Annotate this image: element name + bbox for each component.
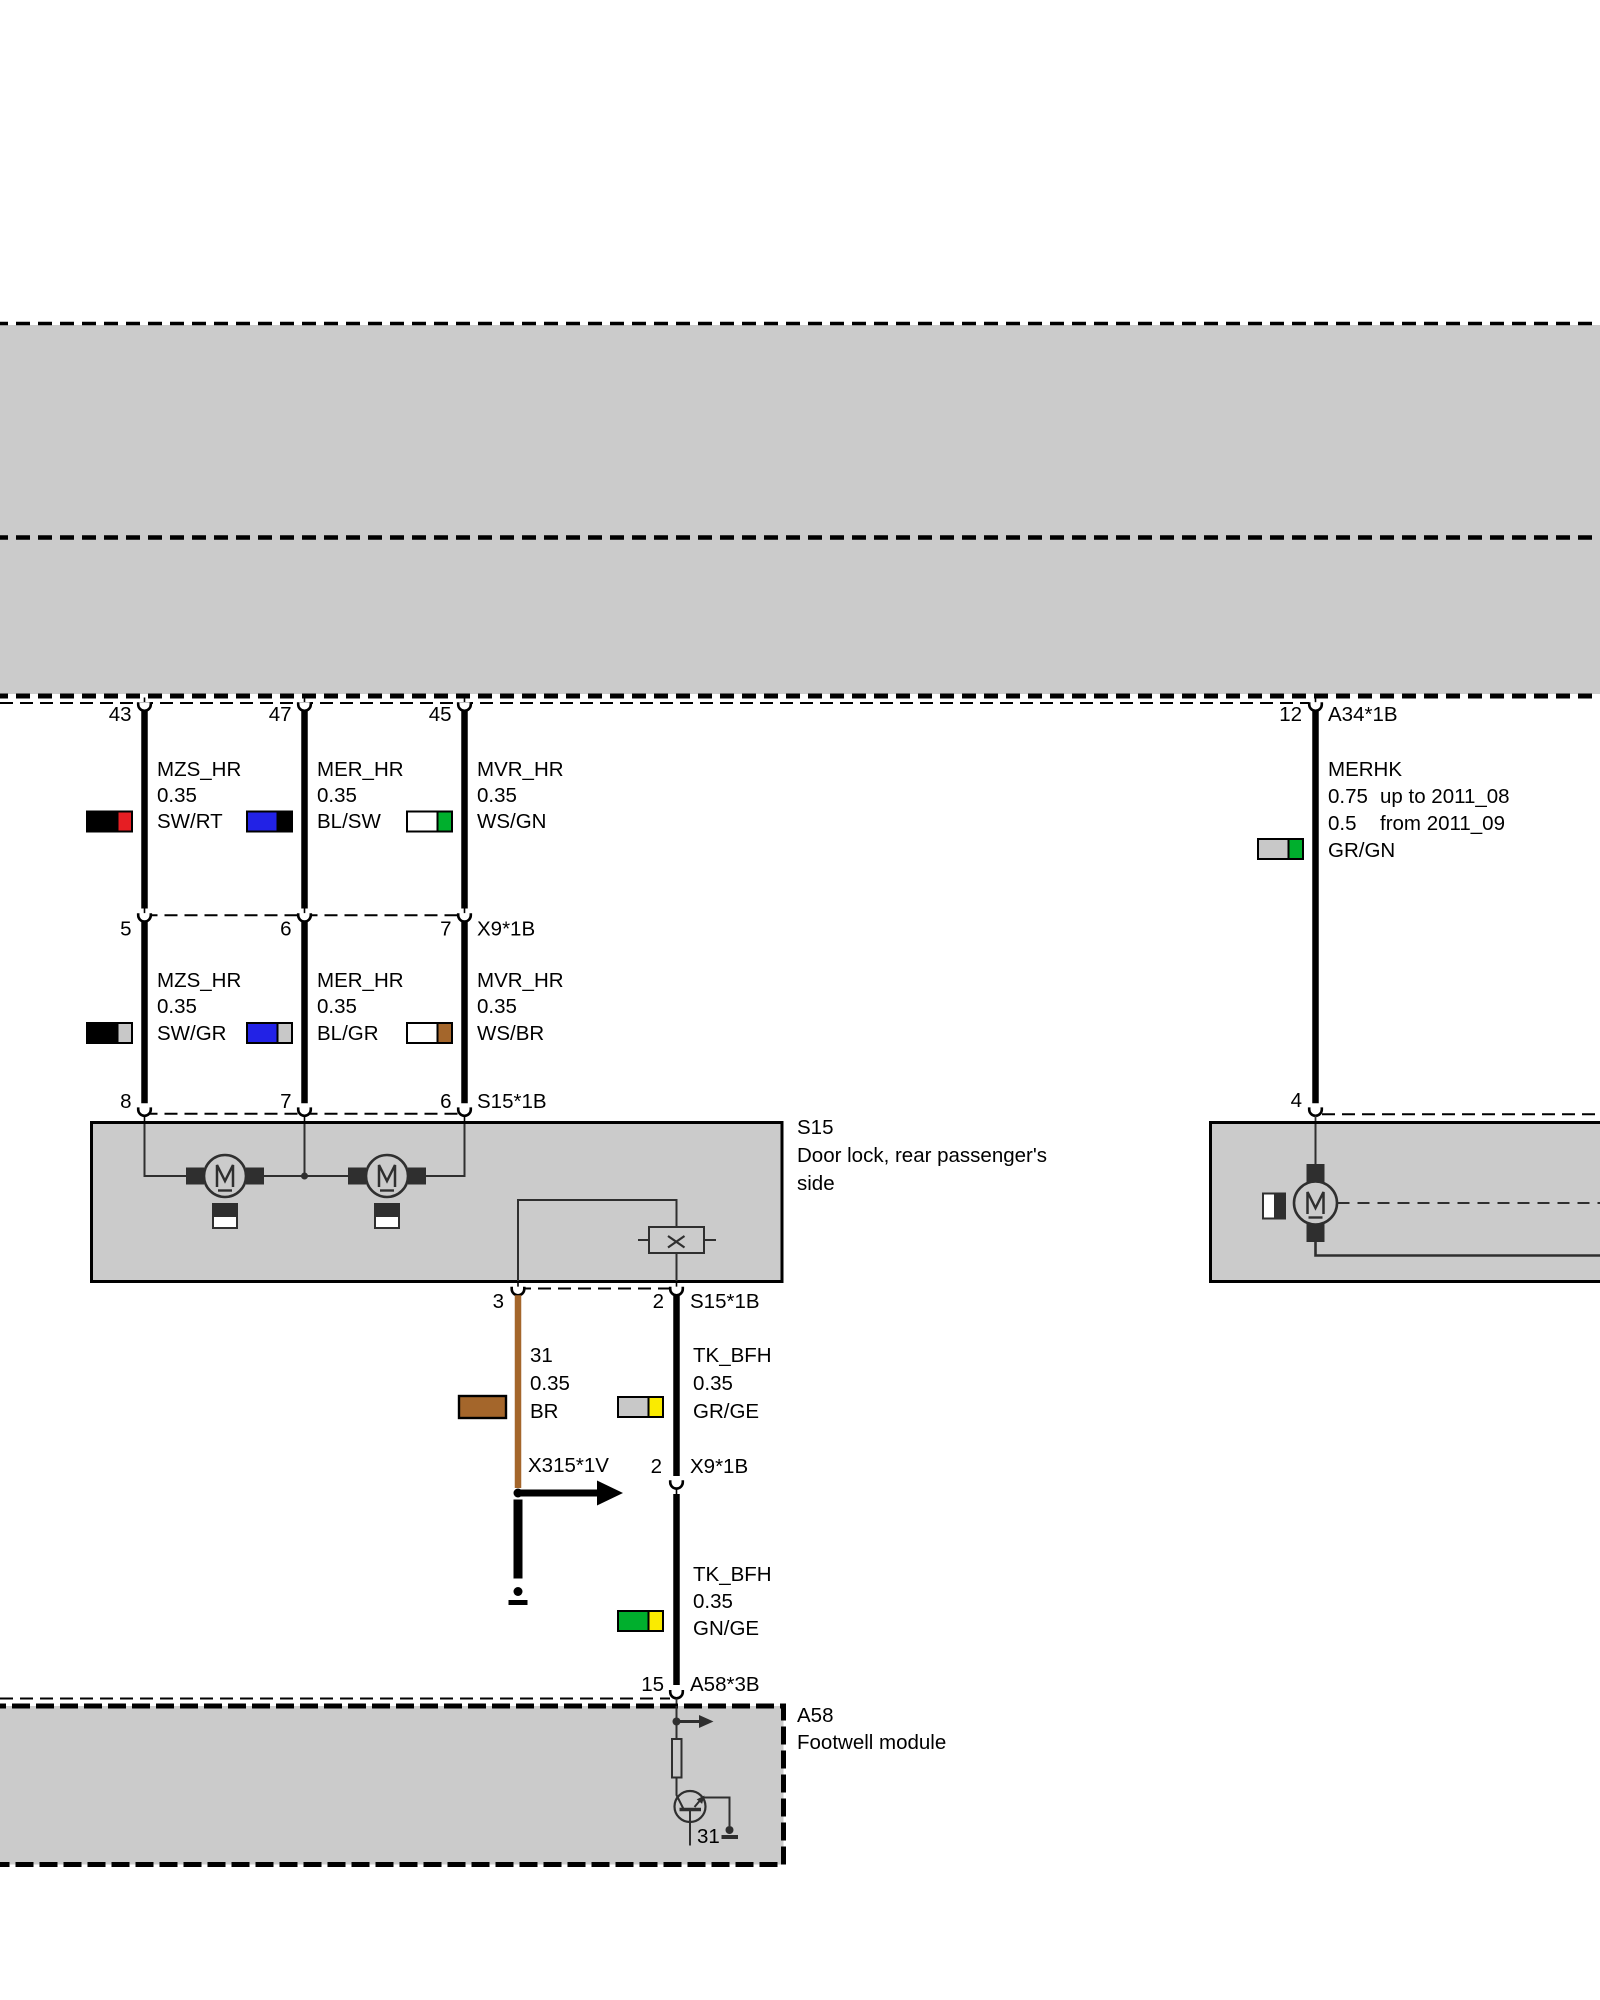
label MVR_HR 0.35 WS/GN: [477, 758, 564, 833]
arrow X315*1V: [518, 1481, 623, 1506]
connector socket pin 4: [1309, 1107, 1322, 1124]
svg-text:0.35: 0.35: [317, 784, 357, 807]
top harness band lower dashed border: [0, 694, 1600, 699]
connector socket X9 pin 6: [298, 909, 311, 922]
svg-text:3: 3: [493, 1290, 504, 1313]
svg-text:0.35: 0.35: [530, 1372, 570, 1395]
wire S15 pin7 to junction: [304, 1124, 306, 1176]
wire pin4 to motor M3: [1315, 1124, 1317, 1164]
colour swatch WS/GN: [406, 811, 453, 833]
wire M3 lower terminal: [1316, 1242, 1600, 1256]
S15 bottom connector dashed line: [518, 1288, 677, 1290]
svg-text:S15*1B: S15*1B: [690, 1290, 760, 1313]
svg-text:5: 5: [120, 918, 131, 941]
top harness band middle dashed divider: [0, 535, 1600, 540]
ground underline: [509, 1600, 528, 1605]
A58 connector strip dashed line: [0, 1698, 670, 1700]
A58 junction node: [673, 1718, 681, 1726]
svg-text:2: 2: [651, 1455, 662, 1478]
svg-text:WS/BR: WS/BR: [477, 1022, 544, 1045]
motor M3: [1294, 1164, 1337, 1242]
colour swatch GR/GN: [1257, 838, 1304, 860]
colour swatch SW/RT: [86, 811, 133, 833]
svg-text:MVR_HR: MVR_HR: [477, 969, 564, 992]
ground lead bar: [514, 1500, 523, 1579]
colour swatch BL/GR: [246, 1022, 293, 1044]
svg-text:GR/GE: GR/GE: [693, 1400, 759, 1423]
svg-text:GR/GN: GR/GN: [1328, 839, 1395, 862]
connector X9*1B dashed box: [145, 915, 465, 1113]
svg-text:0.35: 0.35: [157, 784, 197, 807]
wire emitter to ground: [703, 1798, 730, 1827]
label MZS_HR 0.35 SW/RT: [157, 758, 241, 833]
label MVR_HR 0.35 WS/BR: [477, 969, 564, 1045]
svg-text:0.35: 0.35: [157, 995, 197, 1018]
label TK_BFH 0.35 GR/GE: [693, 1344, 772, 1423]
wire MVR_HR WS/BR lower: [461, 922, 468, 1104]
svg-text:0.35: 0.35: [693, 1372, 733, 1395]
svg-text:SW/GR: SW/GR: [157, 1022, 226, 1045]
svg-text:TK_BFH: TK_BFH: [693, 1563, 772, 1586]
connector socket S15 pin 7: [298, 1107, 311, 1124]
svg-text:0.35: 0.35: [477, 784, 517, 807]
svg-text:MER_HR: MER_HR: [317, 758, 404, 781]
colour swatch GN/GE: [617, 1610, 664, 1632]
label 31 0.35 BR: [530, 1344, 570, 1423]
connector socket pin 3: [512, 1283, 525, 1295]
motor M2: [348, 1155, 426, 1197]
svg-text:A58: A58: [797, 1704, 833, 1727]
connector socket pin 43: [138, 698, 151, 711]
wire MVR_HR WS/GN upper: [461, 711, 468, 909]
svg-text:6: 6: [280, 918, 291, 941]
ground underline A58: [722, 1835, 739, 1839]
connector socket S15 pin 6: [458, 1107, 471, 1124]
connector socket S15 pin 8: [138, 1107, 151, 1124]
colour swatch WS/BR: [406, 1022, 453, 1044]
svg-text:0.35: 0.35: [317, 995, 357, 1018]
svg-text:SW/RT: SW/RT: [157, 810, 223, 833]
wire M1 to M2: [263, 1175, 348, 1177]
A58 designator label: [797, 1704, 946, 1754]
latch symbol left of M3: [1263, 1193, 1286, 1220]
svg-text:BL/GR: BL/GR: [317, 1022, 379, 1045]
svg-text:A58*3B: A58*3B: [690, 1673, 760, 1696]
svg-text:A34*1B: A34*1B: [1328, 703, 1398, 726]
svg-text:4: 4: [1291, 1089, 1302, 1112]
svg-text:7: 7: [440, 918, 451, 941]
wire pin3 to switch: [518, 1200, 677, 1281]
wire resistor to transistor base: [677, 1778, 684, 1810]
connector socket pin 47: [298, 698, 311, 711]
svg-text:MER_HR: MER_HR: [317, 969, 404, 992]
svg-text:0.35: 0.35: [477, 995, 517, 1018]
svg-text:47: 47: [269, 703, 292, 726]
label MER_HR 0.35 BL/GR: [317, 969, 404, 1045]
wire MZS_HR SW/RT upper: [141, 711, 148, 909]
svg-text:Footwell module: Footwell module: [797, 1731, 946, 1754]
svg-text:up to 2011_08: up to 2011_08: [1380, 785, 1510, 808]
ground dot A58: [726, 1826, 734, 1834]
connector socket X9 pin 5: [138, 909, 151, 922]
svg-text:MZS_HR: MZS_HR: [157, 969, 241, 992]
svg-text:0.35: 0.35: [693, 1590, 733, 1613]
svg-text:side: side: [797, 1172, 835, 1195]
svg-text:X9*1B: X9*1B: [690, 1455, 748, 1478]
svg-text:0.5: 0.5: [1328, 812, 1357, 835]
connector socket pin 45: [458, 698, 471, 711]
junction node: [301, 1173, 308, 1180]
top harness band upper dashed border: [0, 322, 1600, 326]
svg-text:X315*1V: X315*1V: [528, 1454, 609, 1477]
svg-text:MVR_HR: MVR_HR: [477, 758, 564, 781]
svg-text:GN/GE: GN/GE: [693, 1617, 759, 1640]
svg-text:from 2011_09: from 2011_09: [1380, 812, 1505, 835]
label MERHK 0.75/0.5 GR/GN: [1328, 758, 1510, 862]
wire switch to pin2: [676, 1253, 678, 1281]
wire TK_BFH GR/GE: [673, 1295, 680, 1476]
label MZS_HR 0.35 SW/GR: [157, 969, 241, 1045]
label TK_BFH 0.35 GN/GE: [693, 1563, 772, 1640]
label MER_HR 0.35 BL/SW: [317, 758, 404, 833]
connector socket pin 12: [1309, 698, 1322, 711]
inline connector X9*1B pin 2: [670, 1480, 683, 1494]
door lock module right box: [1211, 1123, 1600, 1282]
wire S15 pin8 to motor M1: [145, 1124, 187, 1176]
resistor R1: [672, 1739, 682, 1778]
transistor Q1: [675, 1791, 706, 1846]
A58 internal arrow: [677, 1715, 714, 1728]
right box connector dashed line: [1322, 1113, 1600, 1115]
colour swatch GR/GE: [617, 1396, 664, 1418]
svg-text:WS/GN: WS/GN: [477, 810, 546, 833]
junction node X315*1V: [514, 1489, 523, 1498]
wire 31 BR (brown ground wire): [515, 1295, 522, 1488]
wire TK_BFH GN/GE: [673, 1494, 680, 1685]
ground dot: [514, 1587, 523, 1596]
wire MZS_HR SW/GR lower: [141, 922, 148, 1104]
svg-text:S15*1B: S15*1B: [477, 1090, 547, 1113]
colour swatch BL/SW: [246, 811, 293, 833]
latch symbol under M1: [212, 1203, 238, 1228]
svg-text:MERHK: MERHK: [1328, 758, 1402, 781]
svg-text:BR: BR: [530, 1400, 558, 1423]
connector socket A58 pin 15: [670, 1690, 683, 1704]
wire MER_HR BL/SW upper: [301, 711, 308, 909]
svg-text:TK_BFH: TK_BFH: [693, 1344, 772, 1367]
top harness band (gray bus): [0, 325, 1600, 694]
svg-text:43: 43: [109, 703, 132, 726]
svg-text:12: 12: [1279, 703, 1302, 726]
svg-text:8: 8: [120, 1090, 131, 1113]
wire MER_HR BL/GR lower: [301, 922, 308, 1104]
colour swatch SW/GR: [86, 1022, 133, 1044]
svg-text:15: 15: [641, 1673, 664, 1696]
svg-text:7: 7: [280, 1090, 291, 1113]
wire S15 pin6 to motor M2: [426, 1124, 465, 1176]
svg-text:6: 6: [440, 1090, 451, 1113]
svg-text:Door lock, rear passenger's: Door lock, rear passenger's: [797, 1144, 1047, 1167]
connector socket pin 2: [670, 1283, 683, 1295]
switch contact (x): [638, 1227, 716, 1253]
svg-text:45: 45: [429, 703, 452, 726]
motor M1: [186, 1155, 264, 1197]
svg-text:0.75: 0.75: [1328, 785, 1368, 808]
footwell module A58 box: [0, 1706, 784, 1865]
connector socket X9 pin 7: [458, 909, 471, 922]
svg-text:31: 31: [697, 1825, 720, 1848]
dashed mechanical link from M3: [1338, 1202, 1600, 1204]
colour swatch BR: [459, 1396, 506, 1418]
S15 designator label: [797, 1116, 1047, 1195]
wire A58 pin15 feed: [676, 1706, 678, 1722]
wire MERHK GR/GN: [1312, 711, 1319, 1103]
svg-text:2: 2: [653, 1290, 664, 1313]
svg-text:X9*1B: X9*1B: [477, 918, 535, 941]
svg-text:31: 31: [530, 1344, 553, 1367]
connector strip dashed line A34: [0, 702, 1309, 704]
svg-text:BL/SW: BL/SW: [317, 810, 381, 833]
svg-text:S15: S15: [797, 1116, 833, 1139]
svg-text:MZS_HR: MZS_HR: [157, 758, 241, 781]
wire junction to resistor: [676, 1722, 678, 1740]
latch symbol under M2: [374, 1203, 400, 1228]
door lock module S15 box: [92, 1123, 783, 1282]
